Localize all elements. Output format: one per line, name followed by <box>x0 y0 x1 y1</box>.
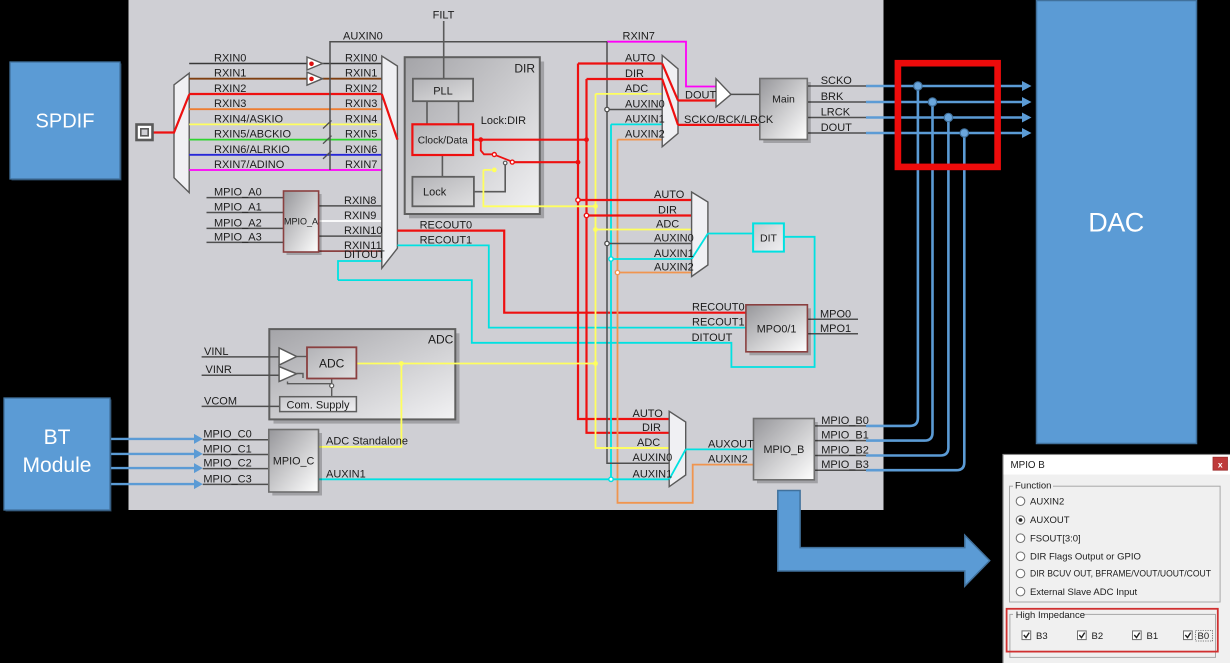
svg-text:RXIN3: RXIN3 <box>214 98 246 110</box>
svg-text:AUXIN0: AUXIN0 <box>633 452 673 464</box>
svg-text:VCOM: VCOM <box>204 395 237 407</box>
svg-text:RXIN2: RXIN2 <box>214 83 246 95</box>
svg-text:RXIN5/ABCKIO: RXIN5/ABCKIO <box>214 129 291 141</box>
svg-text:MPO0: MPO0 <box>820 308 851 320</box>
svg-text:High Impedance: High Impedance <box>1016 610 1085 621</box>
svg-text:SPDIF: SPDIF <box>36 111 95 133</box>
svg-text:RECOUT0: RECOUT0 <box>420 220 473 232</box>
svg-text:RXIN0: RXIN0 <box>214 53 246 65</box>
svg-text:AUXIN2: AUXIN2 <box>1030 496 1064 507</box>
svg-text:BRK: BRK <box>821 91 844 103</box>
svg-text:ADC: ADC <box>625 83 648 95</box>
svg-text:RXIN8: RXIN8 <box>344 195 376 207</box>
svg-text:BT: BT <box>44 426 71 449</box>
svg-text:DITOUT: DITOUT <box>692 332 733 344</box>
svg-text:SCKO: SCKO <box>821 75 853 87</box>
svg-text:RXIN1: RXIN1 <box>214 68 246 80</box>
svg-text:ADC: ADC <box>428 333 454 347</box>
svg-text:RXIN1: RXIN1 <box>345 68 377 80</box>
svg-text:Clock/Data: Clock/Data <box>418 135 468 146</box>
svg-text:AUXIN2: AUXIN2 <box>654 262 694 274</box>
svg-text:MPO0/1: MPO0/1 <box>757 323 797 335</box>
svg-text:AUXIN0: AUXIN0 <box>654 233 694 245</box>
svg-text:MPIO_C0: MPIO_C0 <box>203 429 251 441</box>
svg-text:VINL: VINL <box>204 346 228 358</box>
svg-text:DIR: DIR <box>642 422 661 434</box>
svg-text:AUXIN1: AUXIN1 <box>326 468 366 480</box>
svg-text:RXIN4: RXIN4 <box>345 113 377 125</box>
svg-text:Module: Module <box>23 454 92 477</box>
svg-text:RXIN9: RXIN9 <box>344 210 376 222</box>
svg-text:FILT: FILT <box>433 10 455 22</box>
svg-text:RECOUT1: RECOUT1 <box>692 317 745 329</box>
svg-text:AUXIN2: AUXIN2 <box>625 129 665 141</box>
svg-text:MPIO_B0: MPIO_B0 <box>821 415 869 427</box>
svg-text:Lock: Lock <box>423 187 447 199</box>
svg-text:B3: B3 <box>1036 631 1048 642</box>
svg-text:MPIO_B: MPIO_B <box>763 444 804 456</box>
svg-text:MPIO_B1: MPIO_B1 <box>821 430 869 442</box>
svg-text:DIR: DIR <box>625 68 644 80</box>
svg-text:MPIO_A2: MPIO_A2 <box>214 217 262 229</box>
svg-text:AUTO: AUTO <box>625 53 656 65</box>
svg-text:B1: B1 <box>1147 631 1159 642</box>
svg-text:DAC: DAC <box>1088 208 1144 238</box>
svg-text:Function: Function <box>1015 480 1051 491</box>
svg-text:MPIO_B3: MPIO_B3 <box>821 459 869 471</box>
svg-text:AUTO: AUTO <box>654 189 685 201</box>
svg-text:DIR: DIR <box>514 62 535 76</box>
svg-text:DIR Flags Output or GPIO: DIR Flags Output or GPIO <box>1030 552 1141 563</box>
svg-text:RXIN7/ADINO: RXIN7/ADINO <box>214 159 285 171</box>
svg-text:RXIN2: RXIN2 <box>345 83 377 95</box>
svg-text:MPO1: MPO1 <box>820 323 851 335</box>
svg-text:AUXOUT: AUXOUT <box>708 438 754 450</box>
svg-text:AUXIN1: AUXIN1 <box>625 113 665 125</box>
svg-text:AUXOUT: AUXOUT <box>1030 515 1070 526</box>
svg-text:Lock:DIR: Lock:DIR <box>481 115 526 127</box>
svg-text:MPIO_C2: MPIO_C2 <box>203 458 251 470</box>
svg-text:RXIN5: RXIN5 <box>345 129 377 141</box>
svg-text:RXIN7: RXIN7 <box>623 31 655 43</box>
svg-text:MPIO_C: MPIO_C <box>273 455 315 467</box>
svg-text:x: x <box>1218 460 1223 470</box>
svg-text:MPIO_A1: MPIO_A1 <box>214 202 262 214</box>
svg-text:Main: Main <box>772 93 795 105</box>
svg-text:MPIO_A3: MPIO_A3 <box>214 231 262 243</box>
svg-text:ADC Standalone: ADC Standalone <box>326 435 408 447</box>
svg-text:VINR: VINR <box>206 364 232 376</box>
svg-text:DITOUT: DITOUT <box>344 249 385 261</box>
svg-text:MPIO_A0: MPIO_A0 <box>214 187 262 199</box>
svg-text:ADC: ADC <box>637 437 660 449</box>
svg-text:RXIN7: RXIN7 <box>345 159 377 171</box>
svg-text:PLL: PLL <box>433 85 453 97</box>
svg-text:ADC: ADC <box>319 357 345 371</box>
svg-text:MPIO B: MPIO B <box>1011 460 1046 471</box>
svg-text:AUXIN1: AUXIN1 <box>654 248 694 260</box>
svg-text:B0: B0 <box>1198 631 1210 642</box>
svg-text:External Slave ADC Input: External Slave ADC Input <box>1030 587 1138 598</box>
svg-text:AUXIN0: AUXIN0 <box>343 31 383 43</box>
svg-text:DIT: DIT <box>760 232 778 244</box>
svg-text:DIR BCUV OUT, BFRAME/VOUT/UOUT: DIR BCUV OUT, BFRAME/VOUT/UOUT/COUT <box>1030 569 1211 580</box>
svg-text:AUXIN0: AUXIN0 <box>625 99 665 111</box>
svg-text:DOUT: DOUT <box>685 90 716 102</box>
svg-text:AUXIN2: AUXIN2 <box>708 454 748 466</box>
svg-text:Com. Supply: Com. Supply <box>287 399 350 411</box>
svg-text:B2: B2 <box>1092 631 1104 642</box>
svg-text:MPIO_B2: MPIO_B2 <box>821 445 869 457</box>
svg-text:RXIN0: RXIN0 <box>345 53 377 65</box>
svg-text:RXIN3: RXIN3 <box>345 98 377 110</box>
svg-text:RXIN4/ASKIO: RXIN4/ASKIO <box>214 113 284 125</box>
svg-text:SCKO/BCK/LRCK: SCKO/BCK/LRCK <box>684 114 774 126</box>
svg-text:MPIO_C3: MPIO_C3 <box>203 473 251 485</box>
svg-text:RXIN6: RXIN6 <box>345 144 377 156</box>
svg-text:MPIO_A: MPIO_A <box>284 217 318 227</box>
svg-text:RECOUT0: RECOUT0 <box>692 302 745 314</box>
svg-text:LRCK: LRCK <box>821 107 851 119</box>
svg-text:DIR: DIR <box>658 205 677 217</box>
svg-text:RXIN10: RXIN10 <box>344 225 383 237</box>
svg-text:MPIO_C1: MPIO_C1 <box>203 444 251 456</box>
svg-text:DOUT: DOUT <box>821 122 852 134</box>
svg-text:RXIN6/ALRKIO: RXIN6/ALRKIO <box>214 144 290 156</box>
svg-text:ADC: ADC <box>656 219 679 231</box>
svg-text:AUTO: AUTO <box>633 408 664 420</box>
svg-text:RECOUT1: RECOUT1 <box>420 234 473 246</box>
svg-text:FSOUT[3:0]: FSOUT[3:0] <box>1030 533 1081 544</box>
svg-text:AUXIN1: AUXIN1 <box>633 468 673 480</box>
